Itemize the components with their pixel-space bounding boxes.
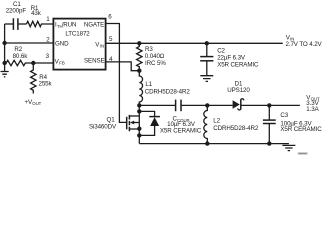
svg-text:X5R CERAMIC: X5R CERAMIC [217,62,259,69]
node L2 bottom [205,141,209,145]
svg-text:UPS120: UPS120 [227,87,250,94]
svg-text:/RUN: /RUN [62,22,77,29]
svg-text:L1: L1 [145,81,152,88]
wire switch node [139,104,175,106]
svg-text:X5R CERAMIC: X5R CERAMIC [280,126,322,133]
node R4 junction [31,61,35,65]
capacitor C1 [5,1,27,30]
svg-text:X5R CERAMIC: X5R CERAMIC [160,127,202,134]
svg-text:FB: FB [59,61,65,66]
svg-text:2.7V TO 4.2V: 2.7V TO 4.2V [286,41,322,48]
node R3 top [137,41,141,45]
svg-text:1.3A: 1.3A [306,106,319,113]
svg-text:C2: C2 [217,47,225,54]
node C3 bottom [267,141,271,145]
svg-text:IRC 5%: IRC 5% [145,60,166,67]
svg-text:Si3460DV: Si3460DV [89,123,117,130]
resistor R2 [5,46,54,65]
diode D1 UPS120 schottky [227,81,300,110]
svg-text:2200pF: 2200pF [6,8,27,15]
svg-text:6: 6 [108,13,112,20]
node VOUT label [306,95,320,113]
wire SENSE [106,62,139,71]
node L2 top [205,103,209,107]
IC U1 LTC1872 [53,19,105,70]
svg-text:80.6k: 80.6k [13,53,29,60]
wire left rail [4,24,6,63]
node junction R2 left [2,61,6,65]
diode body diode of Q1 [137,109,160,137]
inductor L2 [204,105,259,143]
node VIN label [286,35,322,48]
svg-text:CDRH5D28-4R2: CDRH5D28-4R2 [213,125,259,132]
wire VIN rail [106,42,283,44]
resistor R1 [27,5,54,27]
svg-text:C3: C3 [280,112,288,119]
svg-text:1: 1 [46,16,50,23]
svg-text:IN: IN [100,44,104,49]
ground bottom right [282,145,295,150]
wire NGATE to gate [106,24,126,123]
wire pin2 GND [5,42,54,44]
svg-text:CDRH5D28-4R2: CDRH5D28-4R2 [145,88,191,95]
svg-text:GND: GND [55,40,69,47]
capacitor C2 [200,41,259,75]
svg-text:255k: 255k [39,80,53,87]
svg-text:R3: R3 [145,46,153,53]
node switch node [137,103,141,107]
svg-text:NGATE: NGATE [84,22,104,29]
svg-text:2: 2 [46,36,50,43]
transistor Q1 Si3460DV [89,105,142,143]
resistor R3 [137,43,167,70]
svg-text:5: 5 [109,36,113,43]
svg-text:OUT: OUT [32,101,41,106]
inductor L1 [139,71,190,106]
node output junction [267,103,271,107]
svg-text:3: 3 [46,53,50,60]
resistor R4 [31,63,53,94]
wire bottom rail [139,143,289,145]
node junction left GND [2,41,6,45]
figure reference [298,152,308,154]
ground below C2 [200,76,213,82]
capacitor C3 [263,105,322,143]
svg-text:22µF 6.3V: 22µF 6.3V [217,55,246,62]
svg-text:L2: L2 [213,117,220,124]
node R3/L1/SENSE junction [137,69,141,73]
svg-text:Q1: Q1 [107,116,116,123]
svg-text:LTC1872: LTC1872 [65,31,90,38]
svg-text:SENSE: SENSE [84,57,104,64]
ground left [1,63,9,77]
svg-text:43k: 43k [31,10,42,17]
capacitor CCOUP [160,100,233,135]
